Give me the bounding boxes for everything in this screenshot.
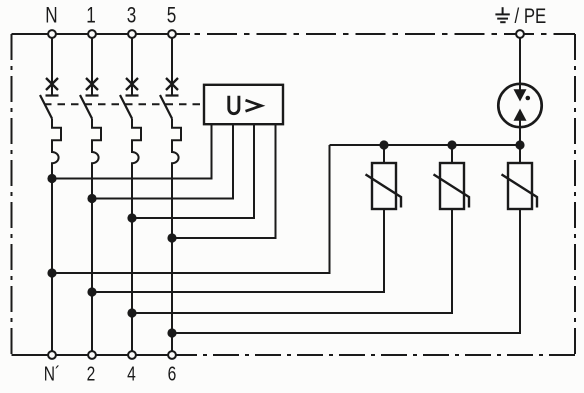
svg-text:6: 6 [168, 363, 177, 385]
svg-text:5: 5 [167, 4, 177, 29]
svg-text:N´: N´ [44, 363, 60, 385]
svg-text:1: 1 [86, 4, 96, 29]
svg-text:N: N [45, 4, 57, 29]
svg-text:4: 4 [127, 363, 136, 385]
svg-text:2: 2 [87, 363, 96, 385]
svg-text:3: 3 [127, 4, 137, 29]
svg-text:/ PE: / PE [515, 5, 547, 28]
